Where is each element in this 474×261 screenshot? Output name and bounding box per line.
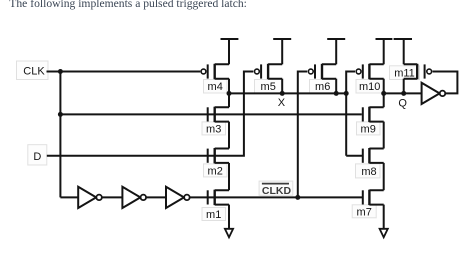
svg-text:The following implements a pul: The following implements a pulsed trigge…: [9, 0, 247, 10]
transistor m7: [363, 190, 384, 205]
wire m7 source to ground: [383, 205, 385, 229]
svg-text:CLK: CLK: [23, 66, 45, 78]
svg-text:m8: m8: [361, 166, 376, 178]
svg-text:m2: m2: [208, 165, 223, 177]
svg-text:X: X: [278, 97, 286, 109]
node junction X branch: [344, 91, 349, 96]
port CLK: [17, 61, 49, 80]
transistor m2: [208, 148, 229, 163]
label X: [278, 97, 286, 109]
svg-text:m1: m1: [206, 209, 221, 221]
label m3: [202, 122, 226, 135]
wire m10 drain to m9 drain: [383, 79, 385, 108]
wire m8 source to m7 drain: [383, 163, 385, 190]
label m4: [204, 80, 228, 94]
wire vdd to m11 source: [403, 39, 405, 64]
wire vdd to m5 source: [281, 39, 283, 64]
wire node Q rail: [384, 92, 422, 94]
wire m9 source to m8 drain: [383, 122, 385, 149]
label m7: [352, 205, 376, 219]
port D: [28, 145, 47, 165]
label Q: [398, 97, 407, 109]
transistor m4: [201, 64, 229, 79]
vdd bar m11: [394, 38, 412, 40]
node junction CLK rail2: [58, 112, 63, 117]
wire m1 source to ground: [228, 205, 230, 229]
transistor m9: [363, 107, 384, 122]
node X: [280, 91, 285, 96]
wire m11 drain to node Q: [403, 79, 405, 94]
svg-text:D: D: [33, 151, 41, 163]
vdd bar m5: [273, 38, 291, 40]
transistor m5: [255, 64, 283, 79]
wire CLKD vertical to m6 gate: [298, 72, 307, 198]
wire CLK rail to m3 and m9 gates: [60, 113, 361, 115]
label m9: [357, 122, 381, 135]
svg-text:CLKD: CLKD: [262, 185, 292, 197]
transistor m11: [404, 64, 432, 79]
title text: [9, 0, 247, 10]
wire CLK to m4 gate: [47, 71, 201, 73]
wire node X to m10 gate and m8 gate: [346, 72, 363, 156]
label m6: [310, 80, 337, 94]
wire node X rail: [229, 92, 346, 94]
label m10: [356, 80, 384, 94]
node junction CLKD: [295, 195, 300, 200]
wire m6 drain to node X: [335, 79, 337, 94]
transistor m1: [208, 190, 229, 205]
svg-text:m7: m7: [357, 206, 372, 218]
inverter I1: [78, 187, 102, 208]
ground right: [380, 229, 388, 238]
transistor m10: [356, 64, 384, 79]
wire vdd to m4 source: [228, 39, 230, 64]
wire feedback Qbar to m11 gate: [433, 72, 458, 94]
wire CLKD rail: [60, 196, 362, 198]
vdd bar m10: [376, 38, 393, 40]
label m8: [356, 164, 381, 178]
svg-text:Q: Q: [398, 97, 407, 109]
inverter U1 output: [422, 83, 446, 104]
node junction m4 drain: [227, 91, 232, 96]
label CLKD: [259, 181, 293, 197]
inverter I2: [122, 187, 146, 208]
label m5: [255, 80, 283, 94]
node junction m11 drain: [401, 91, 406, 96]
label m1: [202, 208, 226, 222]
transistor m3: [208, 107, 229, 122]
svg-text:m3: m3: [206, 123, 221, 135]
transistor m8: [363, 148, 384, 163]
svg-text:m6: m6: [315, 81, 330, 93]
wire m5 drain to node X: [281, 79, 283, 94]
ground left: [225, 229, 233, 238]
wire vdd to m10 source: [383, 39, 385, 64]
node junction m6 drain: [334, 91, 339, 96]
svg-text:m10: m10: [359, 81, 380, 93]
wire m2 source to m1 drain: [228, 163, 230, 190]
node junction CLK: [58, 69, 63, 74]
svg-text:m9: m9: [361, 123, 376, 135]
label m2: [204, 164, 228, 178]
wire m4 drain to m3 drain: [228, 79, 230, 108]
label m11: [390, 66, 420, 80]
vdd bar m6: [327, 38, 345, 40]
node junction m10 drain Q: [381, 91, 386, 96]
svg-text:m4: m4: [208, 81, 223, 93]
wire CLK vertical: [59, 72, 61, 198]
vdd bar m4: [221, 38, 239, 40]
svg-text:m5: m5: [261, 81, 276, 93]
wire D rail to m2 gate and m5 gate: [47, 72, 254, 156]
wire vdd to m6 source: [335, 39, 337, 64]
transistor m6: [308, 64, 336, 79]
inverter I3: [166, 187, 190, 208]
wire m3 source to m2 drain: [228, 122, 230, 149]
